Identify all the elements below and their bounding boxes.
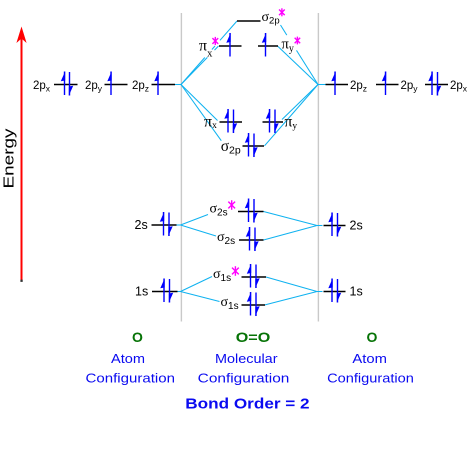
- svg-text:2pz: 2pz: [132, 80, 149, 94]
- wire left to pix: [181, 85, 218, 121]
- wire left to sigma1s: [181, 292, 220, 302]
- svg-text:σ2p: σ2p: [262, 10, 280, 27]
- wire left to sigma2p-star segment 3: [220, 21, 237, 40]
- level left 2py: [105, 84, 128, 86]
- wire left to pix-star segment 1: [181, 57, 207, 84]
- electron up sigma1s-star: [247, 264, 251, 288]
- svg-text:Configuration: Configuration: [327, 371, 414, 386]
- asterisk sigma2p-star: [279, 8, 285, 16]
- electron up left 2py: [107, 71, 111, 95]
- electron up right 2px: [428, 71, 432, 95]
- right separator line: [317, 13, 319, 322]
- electron up sigma2p: [245, 133, 249, 157]
- electron up pix: [224, 109, 228, 133]
- electron up right 1s: [328, 278, 332, 302]
- wire left to sigma2p-star segment 2: [212, 46, 215, 50]
- svg-text:Configuration: Configuration: [86, 371, 176, 386]
- svg-text:πy: πy: [285, 114, 298, 132]
- electron up sigma2s-star: [245, 198, 249, 222]
- svg-text:σ2s: σ2s: [217, 230, 235, 247]
- svg-text:πx: πx: [199, 38, 213, 60]
- level right 2py: [376, 84, 399, 86]
- wire left 1s stub: [178, 291, 181, 293]
- electron up left 2s: [160, 212, 164, 236]
- electron up piy: [266, 109, 270, 133]
- electron up left 2pz: [154, 71, 158, 95]
- wire right to sigma1s: [265, 292, 318, 306]
- wire right 1s stub: [317, 291, 323, 293]
- wire right to sigma1s-star: [266, 277, 317, 292]
- level sigma2s-star: [238, 211, 264, 213]
- svg-text:1s: 1s: [135, 285, 148, 299]
- electron down sigma2s: [254, 228, 258, 252]
- wire right 2p stub: [318, 84, 326, 86]
- electron up left 2px: [61, 71, 65, 95]
- svg-text:Energy: Energy: [1, 128, 18, 189]
- wire right to sigma2p-star segment 2: [281, 25, 287, 35]
- svg-text:πy: πy: [282, 37, 294, 55]
- wire right to piy-star line: [278, 46, 319, 85]
- svg-text:Atom: Atom: [111, 351, 145, 366]
- wire right to sigma2p: [265, 85, 319, 146]
- svg-text:Molecular: Molecular: [215, 351, 278, 366]
- electron up right 2s: [328, 212, 332, 236]
- svg-text:Configuration: Configuration: [198, 371, 290, 386]
- level sigma2p-star: [237, 20, 261, 22]
- electron up pix-star: [226, 33, 230, 57]
- level pix-star: [219, 45, 242, 47]
- asterisk sigma1s-star: [232, 266, 239, 276]
- svg-text:Atom: Atom: [352, 351, 387, 366]
- svg-text:2s: 2s: [350, 219, 363, 233]
- electron down left 2s: [168, 213, 172, 237]
- svg-text:2s: 2s: [135, 218, 148, 232]
- electron down sigma2p: [253, 134, 257, 158]
- electron down sigma1s-star: [255, 265, 259, 289]
- electron up left 1s: [160, 278, 164, 302]
- wire left 2s stub: [177, 224, 181, 226]
- electron up right 2py: [382, 71, 386, 95]
- wire right to piy: [282, 85, 318, 120]
- wire left 2p stub: [175, 84, 181, 86]
- wire left to sigma1s-star: [181, 277, 213, 292]
- electron down right 1s: [337, 279, 341, 303]
- wire right to sigma2s-star: [264, 212, 318, 226]
- svg-text:2px: 2px: [33, 80, 51, 94]
- level sigma2s: [239, 239, 264, 241]
- level left 2pz: [152, 84, 176, 86]
- svg-text:σ1s: σ1s: [213, 267, 231, 284]
- svg-text:2py: 2py: [401, 80, 419, 94]
- electron up sigma2s: [246, 227, 250, 251]
- svg-text:2pz: 2pz: [350, 80, 367, 94]
- level right 2s: [324, 225, 346, 227]
- wire right to sigma2p-star segment 1: [297, 50, 319, 84]
- svg-text:2px: 2px: [450, 80, 468, 94]
- wire right 2s stub: [317, 225, 323, 227]
- level piy-star: [258, 45, 278, 47]
- svg-text:1s: 1s: [350, 285, 363, 299]
- wire left to sigma2s-star: [181, 215, 209, 226]
- level sigma1s-star: [242, 276, 267, 278]
- svg-text:σ1s: σ1s: [221, 295, 239, 312]
- svg-text:O=O: O=O: [236, 329, 271, 345]
- level right 2px: [425, 84, 448, 86]
- electron down sigma2s-star: [253, 199, 257, 223]
- level left 2px: [54, 84, 78, 86]
- level pix: [220, 121, 243, 123]
- asterisk pix-star: [212, 37, 218, 45]
- svg-text:Bond Order = 2: Bond Order = 2: [185, 396, 309, 413]
- electron down pix: [233, 110, 237, 134]
- level right 1s: [324, 291, 346, 293]
- wire left to sigma2s: [181, 225, 217, 236]
- level piy: [263, 121, 284, 123]
- asterisk piy-star: [295, 37, 301, 45]
- wire left to pix-star segment 2: [215, 46, 219, 50]
- electron down right 2px: [437, 72, 441, 96]
- level sigma2p: [243, 145, 265, 147]
- energy axis arrow: [16, 27, 26, 282]
- wire left to sigma2p-star segment 1: [181, 58, 205, 85]
- svg-text:O: O: [132, 329, 143, 345]
- level left 2s: [152, 224, 177, 226]
- electron down right 2s: [337, 213, 341, 237]
- electron down sigma1s: [255, 293, 259, 317]
- level left 1s: [152, 291, 178, 293]
- svg-text:O: O: [367, 329, 378, 345]
- electron down left 2px: [69, 72, 73, 96]
- wire left to sigma2p: [181, 85, 221, 141]
- level right 2pz: [326, 84, 349, 86]
- electron up right 2pz: [331, 71, 335, 95]
- svg-text:πx: πx: [204, 114, 217, 131]
- level sigma1s: [242, 304, 266, 306]
- svg-text:2py: 2py: [85, 80, 103, 94]
- electron down left 1s: [169, 279, 173, 303]
- left separator line: [180, 13, 182, 322]
- svg-text:σ2s: σ2s: [210, 202, 228, 219]
- asterisk sigma2s-star: [228, 200, 235, 210]
- svg-text:σ2p: σ2p: [221, 138, 241, 157]
- electron down piy: [274, 110, 278, 134]
- wire right to sigma2s: [264, 226, 318, 241]
- electron up sigma1s: [247, 292, 251, 316]
- electron up piy-star: [262, 33, 266, 57]
